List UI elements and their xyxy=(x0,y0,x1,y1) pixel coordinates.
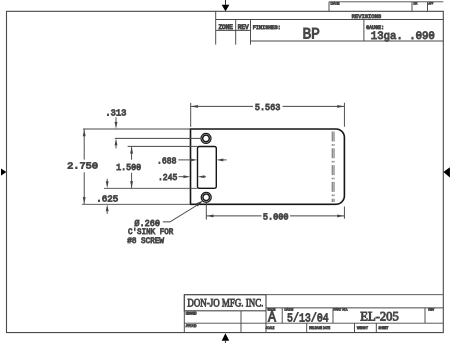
fold mark left xyxy=(1,169,6,176)
dim 2.750 xyxy=(67,129,190,204)
svg-text:.625: .625 xyxy=(96,193,118,204)
bend line 2 xyxy=(333,132,335,203)
hole top c'sink xyxy=(201,133,211,143)
svg-text:SCALE: SCALE xyxy=(265,325,274,330)
hole top xyxy=(203,135,210,142)
dim .688 xyxy=(157,155,227,166)
dim .625 xyxy=(96,179,118,214)
svg-text:DR: DR xyxy=(413,1,417,6)
svg-text:REV: REV xyxy=(238,24,249,31)
svg-text:ZONE: ZONE xyxy=(218,24,233,31)
ext line hole centerline xyxy=(115,137,201,139)
plate outline xyxy=(191,129,345,204)
svg-text:DATE:: DATE: xyxy=(284,307,293,312)
svg-text:5.000: 5.000 xyxy=(263,212,289,223)
latch cutout xyxy=(198,147,217,189)
dim 1.500 xyxy=(104,146,198,188)
svg-text:RELEASE DATE: RELEASE DATE xyxy=(309,325,330,330)
svg-text:1.500: 1.500 xyxy=(116,162,141,173)
svg-text:BP: BP xyxy=(302,25,320,43)
dim 5.000 xyxy=(206,203,344,223)
svg-text:.245: .245 xyxy=(158,172,178,183)
svg-text:PART NO.: PART NO. xyxy=(334,307,348,312)
dim .313 xyxy=(105,108,201,149)
hole bottom c'sink xyxy=(201,192,211,202)
rev cell xyxy=(250,20,252,45)
ext line plate bottom xyxy=(82,203,191,205)
hole bottom xyxy=(203,194,210,201)
svg-text:5/13/04: 5/13/04 xyxy=(287,312,329,325)
svg-text:13ga. .090: 13ga. .090 xyxy=(371,31,435,43)
svg-text:WEIGHT: WEIGHT xyxy=(357,325,368,330)
svg-text:APP: APP xyxy=(428,1,433,6)
part no cell xyxy=(424,308,426,323)
svg-text:2.750: 2.750 xyxy=(67,161,98,172)
finishes cell xyxy=(251,20,444,42)
svg-text:DON-JO MFG. INC.: DON-JO MFG. INC. xyxy=(187,295,263,309)
svg-text:5.563: 5.563 xyxy=(255,102,281,113)
bend line 1 xyxy=(331,132,333,203)
svg-text:APPROVED: APPROVED xyxy=(186,323,197,328)
left rows xyxy=(184,311,443,333)
svg-text:DATE: DATE xyxy=(331,1,340,6)
bottom row xyxy=(307,323,377,332)
ext line cutout top xyxy=(128,145,198,147)
svg-text:SHEET: SHEET xyxy=(378,325,388,330)
revisions table xyxy=(216,11,444,44)
ext line plate top xyxy=(83,128,191,130)
fold mark right xyxy=(443,167,450,177)
svg-text:.313: .313 xyxy=(105,108,126,119)
fold mark top xyxy=(222,0,230,11)
dim 5.563 xyxy=(191,102,345,219)
svg-text:FINISHES:: FINISHES: xyxy=(253,24,281,31)
dim .245 xyxy=(158,172,206,183)
svg-text:#8 SCREW: #8 SCREW xyxy=(127,236,164,246)
fold mark bottom xyxy=(222,333,230,343)
zone cell xyxy=(216,20,251,45)
svg-text:REVISIONS: REVISIONS xyxy=(352,13,382,20)
title block frame xyxy=(184,295,443,333)
svg-text:DESIGNED: DESIGNED xyxy=(186,310,197,315)
date cell xyxy=(332,308,334,323)
svg-text:.688: .688 xyxy=(157,155,177,166)
size cell xyxy=(266,308,443,333)
svg-text:EL-205: EL-205 xyxy=(360,310,399,324)
company cell xyxy=(184,295,266,311)
leader note c'sink xyxy=(127,201,203,246)
ext line cutout bottom xyxy=(104,187,198,189)
revision strip above border xyxy=(329,1,443,12)
svg-text:REV: REV xyxy=(428,307,434,312)
